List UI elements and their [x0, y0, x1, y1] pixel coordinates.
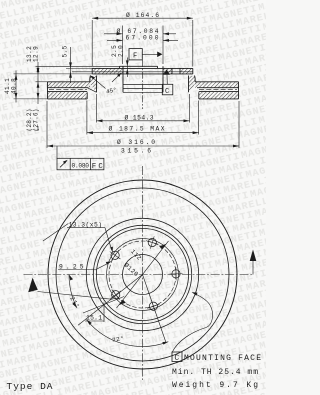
svg-text:Ø 164.6: Ø 164.6 — [126, 11, 159, 19]
svg-text:Min. TH 25.4 mm: Min. TH 25.4 mm — [172, 368, 258, 377]
svg-text:C: C — [174, 354, 179, 363]
svg-text:40.8: 40.8 — [11, 78, 18, 94]
svg-text:MOUNTING FACE: MOUNTING FACE — [184, 354, 261, 363]
svg-text:15.1: 15.1 — [86, 315, 103, 322]
svg-text:0.080: 0.080 — [72, 163, 90, 170]
svg-text:13.3(x5): 13.3(x5) — [69, 221, 103, 228]
svg-text:C: C — [165, 88, 169, 96]
svg-text:Ø 154.3: Ø 154.3 — [125, 114, 154, 122]
svg-text:67.000: 67.000 — [126, 34, 159, 41]
svg-text:5.5: 5.5 — [62, 45, 69, 57]
svg-text:(27.6): (27.6) — [33, 108, 40, 131]
svg-text:F: F — [133, 52, 137, 60]
svg-text:2.0: 2.0 — [117, 45, 124, 57]
svg-text:12.9: 12.9 — [33, 46, 40, 62]
svg-text:FC: FC — [92, 163, 104, 171]
svg-text:Type DA: Type DA — [7, 381, 53, 392]
svg-text:Ø 187.5 MAX: Ø 187.5 MAX — [109, 125, 165, 133]
